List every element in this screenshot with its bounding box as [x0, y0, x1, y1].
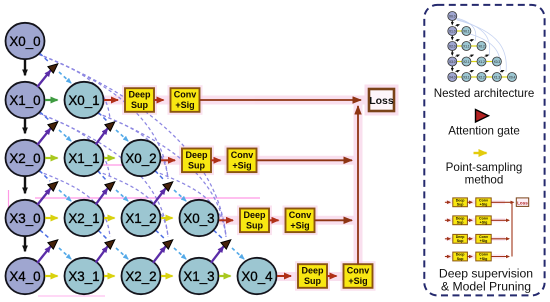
mini node row3 col2 [477, 57, 486, 66]
halo mini ds row [446, 218, 505, 222]
skip arc X1_1 to X1_3 [97, 171, 168, 237]
svg-text:X2.0: X2.0 [449, 45, 456, 49]
arrow X3_0 to X2_1 [45, 217, 58, 219]
arrow X0_2 to DeepSup row3 [161, 159, 175, 161]
mini DeepSup box 3 [453, 252, 468, 261]
mini ds lead arrow 3 [445, 256, 450, 258]
mini yellow arrow row4 col1 [471, 76, 477, 78]
arrow X3_1 to X2_2 [104, 275, 115, 277]
arrow X2_2 to X1_3 [161, 275, 173, 277]
svg-text:X1_1: X1_1 [68, 151, 99, 166]
mini ds line 1 [491, 219, 509, 221]
attention gate of X1_3 [163, 240, 173, 249]
gate output into X0_3 [174, 190, 186, 201]
halo boxes row3 [182, 149, 211, 173]
svg-text:X2.1: X2.1 [463, 60, 470, 64]
attention gate of X3_1 [48, 240, 58, 249]
DeepSup box row4 [240, 209, 269, 233]
svg-text:& Model Pruning: & Model Pruning [441, 280, 531, 294]
skip arc X0_2 to X0_4 [154, 171, 226, 237]
attention gate of X0_1 [48, 64, 58, 73]
node X1_2 [122, 200, 161, 236]
mini ds line 0 [491, 201, 512, 203]
attention gate of X1_1 [48, 122, 58, 131]
svg-text:Deep supervision: Deep supervision [439, 267, 533, 281]
attention gating arrow X2_0 to gate of X1_1 [37, 129, 50, 146]
mini gate arrow row3 col1 [470, 71, 474, 72]
svg-text:Sup: Sup [457, 257, 465, 261]
mini yellow arrow row1 col0 [457, 30, 462, 32]
attention gate of X0_2 [105, 122, 115, 131]
svg-text:Deep: Deep [243, 210, 266, 220]
svg-text:+Sig: +Sig [175, 100, 194, 110]
arrow X0_1 to DeepSup row2 [104, 99, 118, 101]
attention gate of X0_4 [221, 240, 231, 249]
mini collector [511, 202, 513, 256]
mini node row4 col0 [448, 73, 457, 82]
gate output into X2_2 [116, 248, 128, 259]
svg-text:+Sig: +Sig [480, 257, 488, 261]
magenta artifact line left of X3_0 [5, 220, 45, 222]
attention gating arrow X1_2 to gate of X0_3 [153, 189, 166, 205]
attention gating arrow X3_1 to gate of X2_2 [96, 247, 108, 263]
mini node row0 col0 [448, 12, 457, 21]
ConvSig box row3 [228, 149, 257, 173]
magenta artifact vertical left edge [8, 190, 10, 221]
skip arc X2_0 to X2_2 [38, 171, 110, 237]
svg-text:+Sig: +Sig [348, 276, 367, 286]
mini node row4 col4 [508, 73, 517, 82]
skip arc X0_1 to X0_3 [97, 113, 168, 179]
node X2_2 [122, 258, 161, 294]
mini nested: blue arcs [456, 18, 506, 72]
halo boxes row4 [240, 209, 269, 233]
mini yellow arrow row4 col3 [501, 76, 507, 78]
mini gate arrow row2 col2 [485, 55, 489, 56]
mini node row4 col3 [492, 73, 501, 82]
svg-text:X1_3: X1_3 [183, 269, 214, 284]
svg-text:Sup: Sup [131, 100, 149, 110]
attention gating arrow X2_1 to gate of X1_2 [96, 189, 108, 205]
mini yellow arrow row3 col1 [471, 61, 477, 63]
svg-text:Sup: Sup [188, 160, 206, 170]
node X4_0 [6, 258, 45, 294]
svg-text:+Sig: +Sig [480, 221, 488, 225]
mini down arrow row1 [451, 36, 453, 40]
svg-text:X2_2: X2_2 [125, 269, 156, 284]
svg-text:X4.0: X4.0 [449, 76, 456, 80]
svg-text:Sup: Sup [246, 220, 264, 230]
attention gating arrow X1_1 to gate of X0_2 [96, 129, 108, 145]
node X0_3 [180, 200, 219, 236]
gate output into X3_1 [59, 248, 71, 259]
svg-text:X2_1: X2_1 [68, 211, 99, 226]
mini yellow arrow row2 col0 [457, 45, 462, 47]
halo boxes row2 [125, 88, 154, 112]
mini node row2 col2 [477, 42, 486, 51]
magenta artifact line across gap3 [35, 197, 260, 199]
halo row5 line [277, 272, 344, 281]
svg-text:Deep: Deep [301, 266, 324, 276]
attention gate of X2_2 [105, 240, 115, 249]
svg-text:X0.3: X0.3 [494, 60, 501, 64]
skip X0_2 into gate of X0_3 [155, 171, 165, 181]
svg-text:Conv: Conv [347, 266, 370, 276]
skip arc X0_0 to X0_2 [38, 54, 110, 119]
svg-text:X0_1: X0_1 [68, 93, 99, 108]
arrow X0_4 to DeepSup row5 [277, 275, 291, 277]
node X1_3 [180, 258, 219, 294]
svg-text:X1.3: X1.3 [494, 76, 501, 80]
arrow X1_1 to X0_2 [104, 157, 115, 159]
svg-text:X1_0: X1_0 [9, 93, 40, 108]
svg-text:Sup: Sup [457, 239, 465, 243]
arrow X0_3 to DeepSup row4 [219, 219, 233, 221]
skip arc X0_0 to X0_3 [38, 54, 168, 179]
halo boxes row5 [298, 264, 327, 288]
line row2 ConvSig to Loss [200, 99, 362, 101]
svg-text:Conv: Conv [174, 90, 197, 100]
arrow DeepSup to ConvSig row2 [154, 99, 164, 101]
arrow X2_0 to X1_1 [45, 157, 58, 159]
svg-text:X0_4: X0_4 [241, 269, 273, 284]
mini ConvSig box 0 [476, 198, 491, 207]
arrow DeepSup to ConvSig row5 [327, 275, 337, 277]
svg-text:X1.2: X1.2 [478, 60, 485, 64]
mini gate arrow row1 col0 [456, 40, 460, 41]
legend yellow arrow [474, 152, 487, 154]
mini yellow arrow row4 col0 [457, 76, 462, 78]
mini yellow arrow row3 col0 [457, 61, 462, 63]
mini ds arrow 2 [467, 238, 472, 240]
halo row4 line [219, 216, 355, 225]
skip X2_0 into gate of X2_1 [39, 170, 50, 181]
skip X2_1 into gate of X2_2 [98, 230, 107, 239]
down arrow X1_0 to X2_0 [24, 119, 26, 134]
gate output into X0_4 [232, 248, 244, 259]
mini down arrow row3 [451, 66, 453, 71]
mini node row4 col2 [477, 73, 486, 82]
mini node row3 col3 [492, 57, 501, 66]
svg-text:X2_0: X2_0 [9, 151, 40, 166]
svg-text:+Sig: +Sig [232, 160, 251, 170]
mini ds arrow 3 [467, 256, 472, 258]
svg-text:Point-sampling: Point-sampling [446, 161, 523, 174]
attention gate of X1_2 [105, 182, 115, 191]
svg-text:X3_0: X3_0 [9, 211, 40, 226]
arrow X2_1 to X1_2 [104, 217, 115, 219]
svg-text:X0.2: X0.2 [478, 45, 485, 49]
svg-text:Conv: Conv [231, 150, 254, 160]
skip X1_1 into gate of X1_2 [98, 171, 107, 181]
mini ConvSig box 2 [476, 234, 491, 243]
mini ConvSig box 3 [476, 252, 491, 261]
mini DeepSup box 0 [453, 198, 468, 207]
mini ds lead arrow 0 [445, 201, 450, 203]
node X0_4 [238, 258, 277, 294]
node X1_1 [65, 140, 104, 176]
skip arc X1_0 to X1_3 [38, 113, 168, 237]
mini ds arrow 1 [467, 219, 472, 221]
svg-text:Sup: Sup [457, 203, 465, 207]
mini gate arrow row3 col3 [500, 71, 504, 72]
svg-text:Attention gate: Attention gate [448, 125, 520, 138]
DeepSup box row5 [298, 264, 327, 288]
gate output into X0_1 [59, 72, 71, 83]
skip arc X0_1 to X0_4 [97, 113, 226, 237]
mini ds arrow 0 [467, 201, 472, 203]
mini node row1 col0 [448, 27, 457, 36]
arrow DeepSup to ConvSig row4 [269, 219, 279, 221]
mini ds line 2 [491, 238, 509, 240]
svg-text:X3.1: X3.1 [463, 76, 470, 80]
DeepSup box row2 [125, 88, 154, 112]
mini node row2 col0 [448, 42, 457, 51]
mini gate arrow row3 col0 [456, 71, 460, 72]
svg-text:X0.1: X0.1 [463, 30, 470, 34]
svg-text:+Sig: +Sig [290, 220, 309, 230]
attention gating arrow X3_0 to gate of X2_1 [37, 189, 50, 206]
skip X1_2 into gate of X1_3 [156, 230, 166, 239]
arrow X4_0 to X3_1 [45, 275, 58, 277]
svg-text:X4_0: X4_0 [9, 269, 40, 284]
attention gating arrow X1_3 to gate of X0_4 [211, 247, 224, 263]
down arrow X2_0 to X3_0 [24, 177, 26, 194]
mini node row4 col1 [462, 73, 471, 82]
attention gating arrow X1_0 to gate of X0_1 [37, 71, 50, 88]
svg-text:Nested architecture: Nested architecture [434, 87, 535, 100]
down arrow X3_0 to X4_0 [24, 237, 26, 252]
magenta artifact line under X1_1 [95, 164, 130, 166]
svg-text:X3.0: X3.0 [449, 60, 456, 64]
gate output into X2_1 [59, 190, 71, 201]
mini loss box [516, 198, 528, 207]
mini node row3 col0 [448, 57, 457, 66]
gate output into X1_2 [116, 190, 128, 201]
mini gate arrow row2 col0 [456, 55, 460, 56]
collector vertical line [357, 106, 359, 264]
svg-text:Loss: Loss [369, 95, 394, 107]
skip X1_0 into gate of X1_1 [40, 112, 50, 121]
svg-text:Conv: Conv [289, 210, 312, 220]
svg-text:Deep: Deep [128, 90, 151, 100]
attention gate of X2_1 [48, 182, 58, 191]
node X0_1 [65, 82, 104, 118]
svg-text:X1_2: X1_2 [125, 211, 156, 226]
halo collector [354, 104, 363, 264]
mini DeepSup box 1 [453, 216, 468, 225]
legend panel border [424, 5, 544, 296]
mini yellow arrow row2 col1 [471, 45, 477, 47]
svg-text:X0.4: X0.4 [509, 76, 516, 80]
node X2_0 [6, 140, 45, 176]
gate output into X1_1 [59, 130, 71, 141]
svg-text:X1.0: X1.0 [449, 30, 456, 34]
node X3_1 [65, 258, 104, 294]
mini down arrow row2 [451, 51, 453, 56]
ConvSig box row4 [286, 209, 315, 233]
svg-text:X0_3: X0_3 [183, 211, 214, 226]
svg-text:Sup: Sup [304, 276, 322, 286]
mini yellow arrow row4 col2 [486, 76, 492, 78]
mini ds lead arrow 2 [445, 238, 450, 240]
mini node row2 col1 [462, 42, 471, 51]
svg-text:X0_2: X0_2 [125, 151, 156, 166]
arrow X1_0 to X0_1 [45, 99, 58, 101]
skip X0_0 into gate of X0_1 [40, 53, 51, 63]
skip X0_3 into gate of X0_4 [214, 230, 224, 239]
node X3_0 [6, 200, 45, 236]
halo row3 line [161, 156, 355, 165]
halo mini ds row [446, 200, 505, 204]
node X2_1 [65, 200, 104, 236]
mini gate arrow row2 col1 [470, 55, 474, 56]
svg-text:+Sig: +Sig [480, 203, 488, 207]
attention gating arrow X2_2 to gate of X1_3 [153, 247, 166, 263]
loss box [369, 89, 394, 111]
attention gate of X0_3 [163, 182, 173, 191]
DeepSup box row3 [182, 149, 211, 173]
svg-text:X2.2: X2.2 [478, 76, 485, 80]
mini DeepSup box 2 [453, 234, 468, 243]
arrow X1_3 to X0_4 [219, 275, 231, 277]
gate output into X0_2 [116, 130, 128, 141]
halo row2 line [104, 96, 367, 105]
svg-text:+Sig: +Sig [480, 239, 488, 243]
legend attention gate triangle [476, 110, 489, 123]
arrow DeepSup to ConvSig row3 [211, 159, 221, 161]
svg-text:Loss: Loss [517, 200, 528, 205]
skip X0_1 into gate of X0_2 [98, 112, 107, 121]
line row4 ConvSig to collector [315, 219, 353, 221]
halo mini ds row [446, 237, 505, 241]
node X1_0 [6, 82, 45, 118]
mini yellow arrow row3 col2 [486, 61, 492, 63]
ConvSig box row2 [171, 88, 200, 112]
node X0_2 [122, 140, 161, 176]
mini gate arrow row1 col1 [470, 40, 474, 41]
mini node row3 col1 [462, 57, 471, 66]
mini gate arrow row0 col0 [456, 25, 460, 26]
gate output into X1_3 [174, 248, 186, 259]
skip arc X1_0 to X1_2 [38, 113, 110, 179]
magenta artifact near X2_2 bottom [38, 295, 105, 297]
node X0_0 [6, 23, 45, 59]
arrow X1_2 to X0_3 [161, 217, 173, 219]
ConvSig box row5 [344, 264, 373, 288]
mini ds lead arrow 1 [445, 219, 450, 221]
down arrow X0_0 to X1_0 [24, 60, 26, 76]
halo loss box [369, 89, 394, 111]
mini down arrow row0 [451, 21, 453, 25]
attention gating arrow X4_0 to gate of X3_1 [37, 247, 50, 264]
skip X3_0 into gate of X3_1 [40, 230, 50, 239]
svg-text:Deep: Deep [185, 150, 208, 160]
mini ConvSig box 1 [476, 216, 491, 225]
mini ds line 3 [491, 256, 509, 258]
svg-text:Sup: Sup [457, 221, 465, 225]
mini node row1 col1 [462, 27, 471, 36]
skip arc X0_0 to X0_4 [38, 54, 226, 237]
halo mini ds row [446, 255, 505, 259]
svg-text:X0_0: X0_0 [9, 34, 40, 49]
svg-text:X3_1: X3_1 [68, 269, 99, 284]
line row3 ConvSig to collector [257, 159, 353, 161]
mini gate arrow row3 col2 [485, 71, 489, 72]
svg-text:method: method [465, 174, 504, 187]
svg-text:X1.1: X1.1 [463, 45, 470, 49]
svg-text:X0.0: X0.0 [449, 15, 456, 19]
